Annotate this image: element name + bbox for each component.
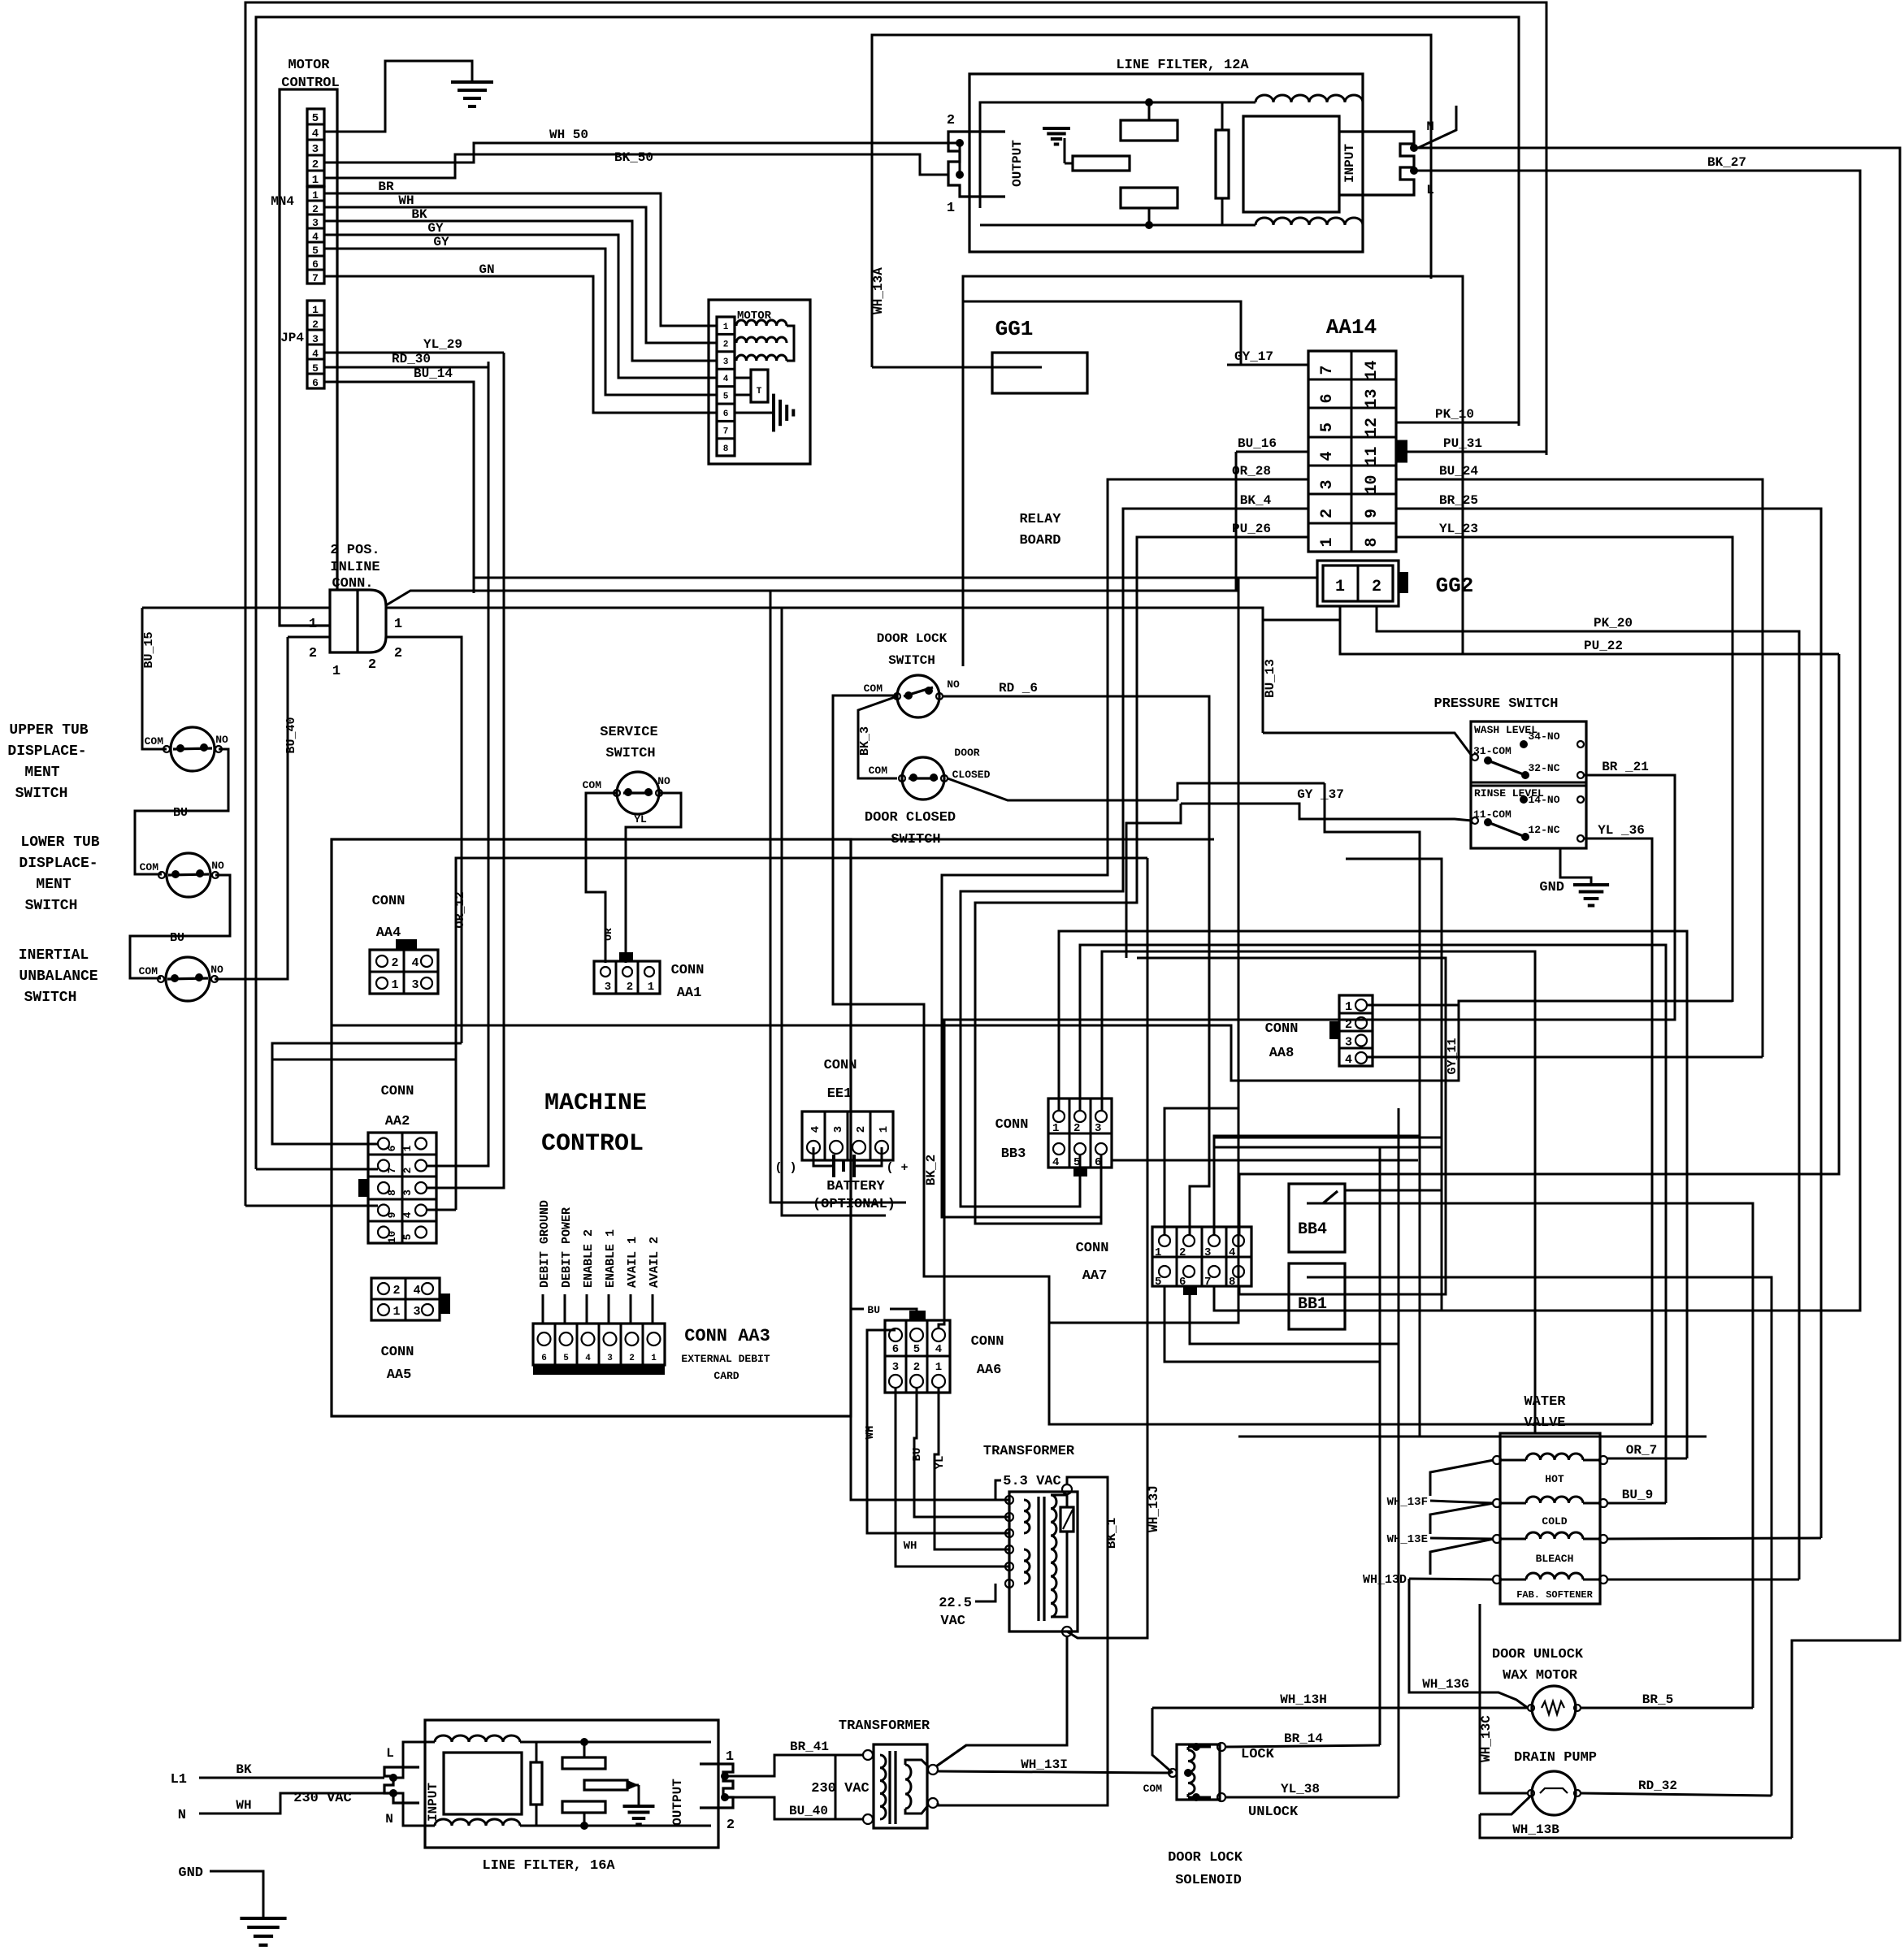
wire WH_13C (1480, 1604, 1528, 1793)
svg-text:YL_29: YL_29 (423, 337, 462, 352)
wire WH_13G (1409, 1579, 1528, 1708)
svg-text:3: 3 (413, 1305, 420, 1319)
wire lts lever (168, 874, 209, 875)
pin drain pump left (1528, 1790, 1534, 1796)
wire PU_26 into AA14 pin1 (1203, 536, 1308, 539)
component service switch (617, 772, 659, 814)
svg-text:WH_13H: WH_13H (1280, 1692, 1327, 1707)
wire 22.5 bracket (975, 1584, 995, 1601)
svg-text:8: 8 (723, 444, 729, 454)
svg-text:CONN: CONN (1076, 1241, 1109, 1256)
svg-text:MN4: MN4 (271, 194, 294, 209)
svg-text:BB3: BB3 (1001, 1146, 1026, 1162)
wire WH_13H (1152, 1707, 1528, 1709)
svg-text:UNLOCK: UNLOCK (1248, 1805, 1299, 1820)
svg-text:2: 2 (312, 203, 319, 215)
svg-text:WH_13A: WH_13A (871, 267, 886, 314)
svg-text:CONN: CONN (372, 894, 406, 909)
svg-text:AA1: AA1 (677, 986, 702, 1001)
wire GG2 pin1 down (1339, 606, 1342, 620)
svg-text:BK_27: BK_27 (1707, 155, 1746, 170)
svg-text:SWITCH: SWITCH (888, 653, 935, 668)
wire L1 BK (199, 1777, 384, 1779)
svg-text:2: 2 (723, 340, 729, 349)
wire BU_14 branch to GG2 (474, 577, 1317, 579)
svg-text:DOOR LOCK: DOOR LOCK (877, 631, 948, 646)
svg-text:3: 3 (1345, 1036, 1352, 1050)
pin wax motor right (1574, 1705, 1581, 1711)
svg-text:4: 4 (585, 1354, 591, 1363)
svg-text:DOOR UNLOCK: DOOR UNLOCK (1492, 1647, 1584, 1662)
svg-text:BU_40: BU_40 (789, 1804, 828, 1818)
wire RD_32 (1581, 1793, 1772, 1796)
component lf16 core box (444, 1753, 522, 1814)
wire AA6 pin3 down (896, 1388, 1009, 1566)
pin ps 34-NO (1577, 741, 1584, 747)
svg-text:8: 8 (386, 1189, 398, 1196)
wire BU_24 (1396, 479, 1763, 1057)
wire AA3 pin2 up (630, 1294, 632, 1324)
svg-text:BK: BK (236, 1762, 252, 1777)
wire lf12 inner top (980, 102, 1256, 208)
pin valve BLEACH left (1493, 1535, 1501, 1543)
svg-text:4: 4 (809, 1126, 822, 1133)
svg-text:5: 5 (913, 1343, 920, 1356)
wire PK_20 from GG2 pin2 (1377, 606, 1799, 1579)
pin t1 in1 (1005, 1496, 1013, 1504)
wire bus 1753 long (1049, 1423, 1652, 1426)
svg-text:UNBALANCE: UNBALANCE (19, 968, 98, 985)
svg-text:COM: COM (140, 861, 159, 873)
svg-text:3: 3 (401, 1189, 414, 1196)
coil motor winding 1 (736, 320, 787, 326)
component lf16 varistor (584, 1780, 627, 1790)
wire BK_4 staircase to BB3 pin5 (961, 509, 1203, 1207)
wire door closed to 1747 vertical (1325, 783, 1420, 1136)
svg-text:DOOR CLOSED: DOOR CLOSED (865, 810, 956, 825)
component GG1 box (992, 353, 1087, 393)
coil water valve HOT (1526, 1454, 1583, 1460)
svg-text:NO: NO (947, 678, 960, 691)
svg-text:GND: GND (178, 1865, 203, 1881)
wire AA6 pin5 BU loop (890, 1309, 917, 1311)
wire OR_28 staircase to BB3 pin6 (942, 479, 1182, 1217)
wire AA7 pin6 to YL_38 (1190, 1286, 1399, 1797)
wire WH_13B (1480, 1814, 1792, 1838)
svg-text:4: 4 (312, 231, 319, 243)
wire ius lever (167, 978, 208, 979)
pin uts com (163, 746, 170, 752)
wire BU_16 bus (410, 452, 1236, 591)
wire WH_13D (1409, 1579, 1494, 1579)
wire lf16 varistor gnd (638, 1785, 640, 1805)
wire N WH (199, 1793, 384, 1813)
wire lf16 top line (520, 1741, 711, 1744)
svg-text:COM: COM (1143, 1783, 1163, 1795)
wire AA3 pin3 up (608, 1294, 610, 1324)
wire BK_27 continuation up (1214, 1147, 1442, 1311)
wire uts no to lts com (135, 749, 228, 874)
svg-text:GY: GY (427, 221, 444, 236)
svg-text:BK_2: BK_2 (924, 1155, 939, 1185)
pin tab AA5 (440, 1293, 450, 1314)
svg-text:9: 9 (1363, 509, 1381, 518)
svg-text:2: 2 (1345, 1018, 1352, 1032)
svg-text:7: 7 (312, 272, 319, 284)
svg-text:PU_22: PU_22 (1584, 639, 1623, 653)
wire valve BLEACH left jog (1430, 1539, 1494, 1575)
pin lf16 out2 dot (721, 1793, 729, 1801)
wire YL_23 (1396, 537, 1733, 1002)
connector BB3 (1048, 1098, 1112, 1168)
pin t2 out1 (928, 1765, 938, 1774)
svg-text:3: 3 (607, 1354, 613, 1363)
svg-text:1: 1 (651, 1354, 657, 1363)
svg-text:CONN: CONN (381, 1345, 414, 1360)
pin t1 in4 (1005, 1545, 1013, 1553)
wire BB3 pin1 net OR_7 feed (1059, 931, 1687, 1458)
svg-text:4: 4 (413, 1284, 420, 1298)
svg-text:1: 1 (726, 1749, 734, 1765)
pin ius com (158, 976, 164, 982)
svg-text:OUTPUT: OUTPUT (670, 1779, 685, 1826)
svg-text:OR_12: OR_12 (453, 891, 467, 928)
connector AA7 (1152, 1227, 1251, 1286)
svg-text:LINE FILTER, 16A: LINE FILTER, 16A (482, 1858, 615, 1874)
wire svc lever (623, 791, 653, 794)
svg-text:4: 4 (1229, 1246, 1235, 1259)
svg-text:WH 50: WH 50 (549, 128, 588, 142)
svg-text:32-NC: 32-NC (1528, 762, 1559, 774)
pin lf12 L dot (1410, 167, 1418, 175)
svg-text:BU_9: BU_9 (1622, 1488, 1653, 1502)
svg-text:2: 2 (309, 646, 317, 661)
connector lf12 INPUT (1339, 132, 1414, 195)
wire uts lever (173, 748, 212, 749)
component lf12 core box (1243, 116, 1339, 212)
svg-text:EXTERNAL DEBIT: EXTERNAL DEBIT (681, 1353, 770, 1365)
svg-text:3: 3 (312, 217, 319, 229)
wire PU_22 from GG2 pin1 (1340, 620, 1839, 654)
svg-text:COM: COM (869, 765, 888, 777)
svg-text:WH_13D: WH_13D (1363, 1573, 1407, 1587)
wire WH_2 MN4 to motor pin2 (324, 207, 717, 343)
wire WH_13H to solenoid COM (1152, 1708, 1173, 1773)
svg-text:TRANSFORMER: TRANSFORMER (983, 1444, 1075, 1459)
component lf16 resistor (531, 1762, 542, 1805)
coil t1 secondary a (1024, 1500, 1030, 1533)
svg-text:4: 4 (935, 1343, 942, 1356)
svg-text:22.5: 22.5 (939, 1596, 972, 1611)
wire solenoid bottom (1187, 1794, 1190, 1797)
wire filler 1768 (1238, 1436, 1707, 1438)
svg-text:3: 3 (1204, 1246, 1211, 1259)
svg-text:2: 2 (913, 1361, 920, 1374)
svg-text:BR_14: BR_14 (1284, 1731, 1323, 1746)
svg-text:CONN: CONN (671, 963, 705, 978)
component inertial switch (166, 957, 210, 1001)
wire AA2 pin4 right (427, 1209, 456, 1211)
svg-text:INPUT: INPUT (1342, 144, 1357, 183)
coil water valve COLD (1526, 1497, 1583, 1503)
pin tab AA7 (1183, 1286, 1197, 1295)
svg-text:CONN: CONN (381, 1084, 414, 1099)
svg-text:DOOR: DOOR (954, 747, 979, 759)
wire AA6 pin1 down YL (935, 1388, 1009, 1549)
component BB1 box (1289, 1263, 1345, 1329)
component MOTOR CONTROL box (280, 89, 337, 626)
wire AA7 pin5 to BR_14 (1165, 1286, 1380, 1745)
svg-text:WH: WH (398, 193, 414, 208)
ground top (MN4 pin4) (451, 80, 493, 84)
svg-text:AA2: AA2 (385, 1114, 410, 1129)
svg-text:2: 2 (947, 113, 955, 128)
connector lf16 OUTPUT (700, 1764, 733, 1808)
pin tab AA2 pin8 (358, 1179, 368, 1197)
wire bus 1262 (332, 1005, 1459, 1081)
wire motor winding right side (787, 326, 794, 361)
component RELAY BOARD outline (963, 276, 1463, 666)
wire svc no down YL (626, 793, 681, 963)
svg-text:BU_13: BU_13 (1263, 659, 1277, 698)
svg-text:AVAIL 2: AVAIL 2 (648, 1237, 661, 1288)
svg-text:7: 7 (1204, 1276, 1211, 1289)
wire WH_13I (938, 1771, 1171, 1773)
svg-text:6: 6 (541, 1354, 547, 1363)
svg-text:2: 2 (726, 1818, 735, 1833)
svg-text:BU_15: BU_15 (142, 631, 156, 668)
svg-text:7: 7 (1318, 365, 1337, 375)
svg-text:1: 1 (394, 617, 402, 632)
svg-text:COM: COM (583, 779, 602, 791)
component LINE FILTER 12A box (969, 74, 1363, 252)
svg-text:10: 10 (1363, 474, 1381, 494)
component lf16 cap top (562, 1757, 605, 1769)
component lf12 cap top (1121, 120, 1178, 141)
connector motor 8-pin (717, 317, 735, 456)
wire WH_13E (1430, 1538, 1494, 1539)
coil lf16 top (435, 1735, 520, 1742)
svg-text:ENABLE 2: ENABLE 2 (582, 1229, 596, 1288)
svg-text:NO: NO (215, 734, 228, 746)
svg-text:7: 7 (386, 1168, 398, 1174)
svg-text:LINE FILTER, 12A: LINE FILTER, 12A (1116, 58, 1249, 73)
wire valve HOT left jog (1430, 1460, 1494, 1496)
ground lf12 internal (1064, 138, 1066, 163)
svg-text:SWITCH: SWITCH (24, 990, 77, 1006)
svg-text:2: 2 (1073, 1122, 1080, 1135)
svg-text:1: 1 (401, 1145, 414, 1151)
pin dcs no (941, 775, 948, 782)
svg-text:BB1: BB1 (1298, 1295, 1327, 1314)
svg-text:1: 1 (1155, 1246, 1161, 1259)
wire GY_17 into AA14 pin7 (1227, 364, 1308, 366)
wire lf16 N inner (393, 1793, 435, 1826)
svg-text:2: 2 (393, 1284, 400, 1298)
svg-text:CONN: CONN (1265, 1021, 1299, 1037)
svg-text:3: 3 (1095, 1122, 1101, 1135)
svg-text:MENT: MENT (24, 765, 59, 781)
coil water valve FAB. SOFTENER (1526, 1573, 1583, 1579)
wire svc com down (586, 793, 617, 963)
svg-text:RD_30: RD_30 (392, 352, 431, 366)
component transformer2 box (874, 1744, 927, 1828)
wire ps wash lever (1488, 760, 1525, 775)
svg-text:2: 2 (312, 158, 319, 171)
wire BU_14 (324, 382, 474, 593)
svg-text:BR_5: BR_5 (1642, 1692, 1673, 1707)
svg-text:PU_26: PU_26 (1232, 522, 1271, 536)
svg-text:LOCK: LOCK (1241, 1747, 1275, 1762)
connector AA4 (370, 950, 438, 994)
wire AA3 pin1 up (652, 1294, 654, 1324)
wire YL_38 (1225, 1796, 1399, 1799)
connector AA1 (594, 961, 660, 994)
wire BU_40 net (215, 637, 288, 979)
svg-text:CONN AA3: CONN AA3 (684, 1326, 770, 1346)
pin solenoid UNLOCK (1217, 1793, 1225, 1801)
svg-text:3: 3 (723, 357, 729, 367)
svg-text:RELAY: RELAY (1019, 512, 1061, 527)
wire AA3 pin6 up (542, 1294, 544, 1324)
svg-text:WH_13F: WH_13F (1387, 1496, 1428, 1509)
wire lts no to ius com (130, 875, 230, 978)
wire AA7 pin1 up (1165, 1108, 1238, 1235)
coil t2 primary (880, 1755, 886, 1819)
connector lf16 INPUT (384, 1767, 419, 1803)
wire MN4 pin4 to ground (324, 61, 472, 132)
svg-text:10: 10 (386, 1231, 398, 1244)
wire GN_6 MN4 to motor pin6 (324, 276, 717, 413)
svg-text:BU_24: BU_24 (1439, 464, 1478, 479)
coil motor winding 2 (736, 337, 787, 343)
svg-text:WH_13G: WH_13G (1422, 1677, 1469, 1692)
connector MN4b 7-pin (307, 187, 324, 284)
pin t2 out2 (928, 1798, 938, 1808)
connector AA3 (533, 1324, 665, 1365)
svg-text:5.3 VAC: 5.3 VAC (1003, 1474, 1060, 1489)
wire BB4 top wire (1345, 1189, 1442, 1192)
svg-text:YL_38: YL_38 (1281, 1782, 1320, 1796)
pin t1 sec bot (1062, 1627, 1072, 1636)
wire WH_13J (1067, 858, 1147, 1638)
wire GG2 left vertical (1238, 578, 1240, 1137)
svg-text:LOWER TUB: LOWER TUB (20, 834, 99, 851)
wire BB4 contact (1307, 1202, 1345, 1205)
wire dls lever (904, 687, 933, 696)
wire lf16 cap stems (583, 1742, 586, 1757)
connector AA8 (1339, 995, 1373, 1066)
svg-text:5: 5 (312, 112, 319, 125)
component door lock switch circle (897, 675, 939, 717)
svg-text:1: 1 (947, 201, 955, 216)
svg-text:WAX MOTOR: WAX MOTOR (1503, 1668, 1578, 1683)
wire BR_5 (1581, 1707, 1753, 1709)
pin valve COLD right (1599, 1499, 1607, 1507)
svg-text:12: 12 (1363, 418, 1381, 437)
svg-text:BU_14: BU_14 (414, 366, 453, 381)
svg-text:2: 2 (394, 646, 402, 661)
wire left bus filler 1304 (272, 1059, 455, 1061)
pin tab AA6 top (909, 1311, 926, 1320)
wire t1 sec bottom to 230tx (936, 1636, 1067, 1766)
wire BK_3 net (858, 696, 897, 778)
component upper tub switch (171, 727, 215, 771)
svg-text:8: 8 (1229, 1276, 1235, 1289)
component t2 core (888, 1751, 891, 1824)
wire WH_13F (1430, 1501, 1494, 1503)
wire gnd bottom (210, 1871, 263, 1917)
svg-text:3: 3 (1318, 479, 1337, 489)
svg-text:3: 3 (832, 1126, 845, 1133)
wire WH_50 (324, 143, 960, 162)
connector EE1 (802, 1111, 893, 1160)
wire GY_4 MN4 to motor pin4 (324, 235, 717, 378)
svg-text:YL _36: YL _36 (1598, 823, 1645, 838)
wire BR_21 (939, 775, 1675, 1328)
svg-text:4: 4 (1052, 1156, 1059, 1169)
pin lf16 L dot (389, 1774, 397, 1782)
wire RD_30 (324, 362, 488, 367)
svg-text:AVAIL 1: AVAIL 1 (626, 1237, 640, 1288)
pin solenoid LOCK (1217, 1743, 1225, 1751)
svg-text:230 VAC: 230 VAC (811, 1781, 869, 1796)
svg-text:COM: COM (139, 965, 158, 977)
pin GG2 tab (1399, 572, 1408, 593)
svg-text:14: 14 (1363, 360, 1381, 379)
svg-text:6: 6 (386, 1145, 398, 1151)
svg-text:MOTOR: MOTOR (288, 58, 330, 73)
svg-text:BR: BR (378, 180, 394, 194)
wire AA3 pin4 up (586, 1294, 588, 1324)
svg-text:CLOSED: CLOSED (952, 769, 991, 781)
wire filler 1400 (1214, 1137, 1442, 1139)
pin valve COLD left (1493, 1499, 1501, 1507)
svg-text:L1: L1 (171, 1772, 187, 1787)
wire PU_26 net outer loop (top/left border) (245, 2, 1546, 1206)
svg-text:5: 5 (401, 1233, 414, 1240)
pin t1 sec top (1062, 1484, 1072, 1494)
svg-text:1: 1 (723, 323, 729, 332)
component motor thermostat T (735, 377, 751, 379)
svg-text:AA14: AA14 (1326, 315, 1377, 340)
wire AA8 pin4 BU_24 (1367, 1056, 1763, 1059)
wire AA7 pin8 GY_11 (1137, 958, 1446, 1294)
connector JP4 6-pin (307, 301, 324, 388)
wire AA3 pin5 up (564, 1294, 566, 1324)
wire filler 1428 (1112, 1159, 1418, 1162)
svg-text:NO: NO (210, 964, 223, 976)
svg-text:TRANSFORMER: TRANSFORMER (839, 1718, 930, 1734)
component water valve box (1500, 1433, 1600, 1604)
wire N to right (1414, 148, 1900, 1838)
wire dcs chain right (1178, 783, 1325, 800)
svg-text:6: 6 (1318, 393, 1337, 403)
svg-text:1: 1 (332, 664, 340, 679)
svg-text:6: 6 (723, 409, 729, 419)
wire inner border to AA2 pin7 (256, 1168, 378, 1171)
wire battery right (854, 1147, 882, 1166)
wire BR_41 (725, 1755, 864, 1776)
svg-text:CARD: CARD (713, 1370, 739, 1382)
component MACHINE CONTROL box (332, 839, 851, 1416)
svg-text:2: 2 (627, 981, 633, 994)
wire 1698 vertical extension (1379, 1147, 1381, 1362)
svg-text:1: 1 (391, 978, 398, 992)
wire 5.3 bracket (995, 1480, 1001, 1500)
svg-text:EE1: EE1 (827, 1086, 852, 1102)
svg-text:BK_4: BK_4 (1240, 493, 1272, 508)
